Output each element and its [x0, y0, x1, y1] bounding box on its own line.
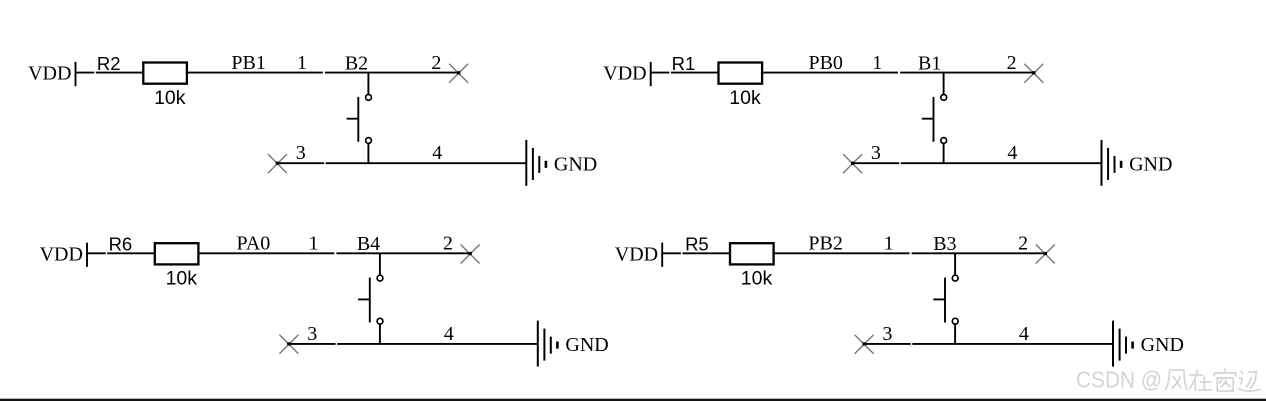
wire R1 to B1 pin 1 (net PB0) [763, 72, 898, 74]
push button B3 bottom contact [952, 318, 958, 324]
svg-text:1: 1 [309, 233, 319, 255]
push button B4 actuator [358, 278, 370, 323]
svg-text:VDD: VDD [40, 243, 83, 265]
svg-text:3: 3 [296, 142, 306, 164]
svg-text:4: 4 [1007, 142, 1017, 164]
resistor R6 body [155, 243, 199, 264]
push button B4 top contact [377, 275, 383, 281]
wire B4 pin 4 to GND [337, 343, 538, 345]
wire VDD to R1 [651, 72, 719, 74]
svg-text:CSDN @: CSDN @ [1076, 366, 1162, 392]
no-connect X on B1 pin 2 [1024, 64, 1043, 83]
push button B2 pin 4 wire [367, 144, 369, 163]
no-connect X on B4 pin 2 [461, 245, 480, 264]
wire B3 pin 3 stub [864, 343, 911, 345]
push button B2 top contact [366, 95, 372, 101]
svg-text:2: 2 [431, 52, 441, 74]
svg-text:GND: GND [1141, 334, 1184, 356]
svg-text:R1: R1 [672, 53, 696, 74]
svg-text:B4: B4 [357, 233, 380, 255]
svg-text:R6: R6 [109, 234, 133, 255]
wire VDD to R5 [662, 252, 730, 254]
wire B3 pin 1 to pin 2 stub [912, 252, 1046, 254]
resistor R5 body [730, 243, 774, 264]
svg-text:1: 1 [297, 52, 307, 74]
svg-text:1: 1 [872, 52, 882, 74]
no-connect X on B2 pin 2 [449, 64, 468, 83]
wire R6 to B4 pin 1 (net PA0) [199, 252, 334, 254]
svg-text:10k: 10k [729, 87, 761, 109]
push button B4 bottom contact [377, 318, 383, 324]
no-connect X on B3 pin 3 [855, 335, 874, 354]
no-connect X on B3 pin 2 [1036, 245, 1055, 264]
svg-text:GND: GND [554, 153, 597, 175]
watermark character chuang [1214, 369, 1236, 392]
svg-text:3: 3 [307, 323, 317, 345]
svg-text:PB0: PB0 [808, 52, 842, 74]
svg-text:GND: GND [1129, 153, 1172, 175]
ground symbol (A) [525, 140, 527, 186]
no-connect X on B1 pin 3 [843, 154, 862, 173]
wire VDD to R2 [76, 72, 144, 74]
svg-text:3: 3 [871, 142, 881, 164]
svg-text:3: 3 [882, 323, 892, 345]
watermark character feng [1165, 370, 1187, 391]
wire B1 pin 3 stub [853, 162, 900, 164]
no-connect X on B4 pin 3 [279, 335, 298, 354]
svg-text:GND: GND [565, 334, 608, 356]
wire B3 pin 4 to GND [912, 343, 1113, 345]
svg-text:B1: B1 [918, 52, 941, 74]
svg-text:10k: 10k [741, 268, 773, 290]
svg-text:B3: B3 [933, 233, 956, 255]
svg-text:VDD: VDD [28, 63, 71, 85]
push button B4 pin 1 wire [379, 253, 381, 274]
push button B1 pin 4 wire [943, 144, 945, 163]
push button B3 pin 1 wire [954, 253, 956, 274]
svg-text:2: 2 [1007, 52, 1017, 74]
svg-text:4: 4 [444, 323, 454, 345]
wire B2 pin 3 stub [277, 162, 324, 164]
svg-text:10k: 10k [154, 87, 186, 109]
svg-text:B2: B2 [345, 52, 368, 74]
push button B4 pin 4 wire [379, 325, 381, 344]
push button B3 pin 4 wire [954, 325, 956, 344]
push button B1 top contact [941, 95, 947, 101]
resistor R2 body [143, 63, 187, 84]
wire B2 pin 4 to GND [326, 162, 527, 164]
push button B2 pin 1 wire [367, 73, 369, 94]
push button B2 actuator [347, 97, 359, 142]
push button B1 pin 1 wire [943, 73, 945, 94]
wire R5 to B3 pin 1 (net PB2) [775, 252, 910, 254]
svg-text:VDD: VDD [603, 63, 646, 85]
wire B4 pin 3 stub [289, 343, 336, 345]
wire B1 pin 1 to pin 2 stub [900, 72, 1034, 74]
resistor R1 body [719, 63, 763, 84]
svg-text:2: 2 [1018, 233, 1028, 255]
ground symbol (C) [537, 321, 539, 367]
wire B1 pin 4 to GND [901, 162, 1102, 164]
watermark character zai [1189, 370, 1212, 392]
wire R2 to B2 pin 1 (net PB1) [188, 72, 323, 74]
watermark character bian [1238, 371, 1261, 391]
wire B4 pin 1 to pin 2 stub [336, 252, 470, 254]
ground symbol (D) [1112, 321, 1114, 367]
svg-text:PA0: PA0 [237, 233, 271, 255]
svg-text:PB2: PB2 [808, 233, 842, 255]
svg-text:10k: 10k [166, 268, 198, 290]
svg-text:4: 4 [1019, 323, 1029, 345]
push button B2 bottom contact [366, 138, 372, 144]
bottom divider bar [0, 399, 1266, 401]
wire B2 pin 1 to pin 2 stub [325, 72, 459, 74]
ground symbol (B) [1101, 140, 1103, 186]
push button B1 actuator [922, 97, 934, 142]
push button B3 top contact [952, 275, 958, 281]
svg-text:R5: R5 [685, 234, 709, 255]
push button B1 bottom contact [941, 138, 947, 144]
svg-text:R2: R2 [97, 53, 121, 74]
wire VDD to R6 [87, 252, 155, 254]
push button B3 actuator [933, 278, 945, 323]
svg-text:PB1: PB1 [231, 52, 265, 74]
svg-text:VDD: VDD [615, 243, 658, 265]
svg-text:4: 4 [432, 142, 442, 164]
no-connect X on B2 pin 3 [268, 154, 287, 173]
svg-text:2: 2 [443, 233, 453, 255]
svg-text:1: 1 [884, 233, 894, 255]
